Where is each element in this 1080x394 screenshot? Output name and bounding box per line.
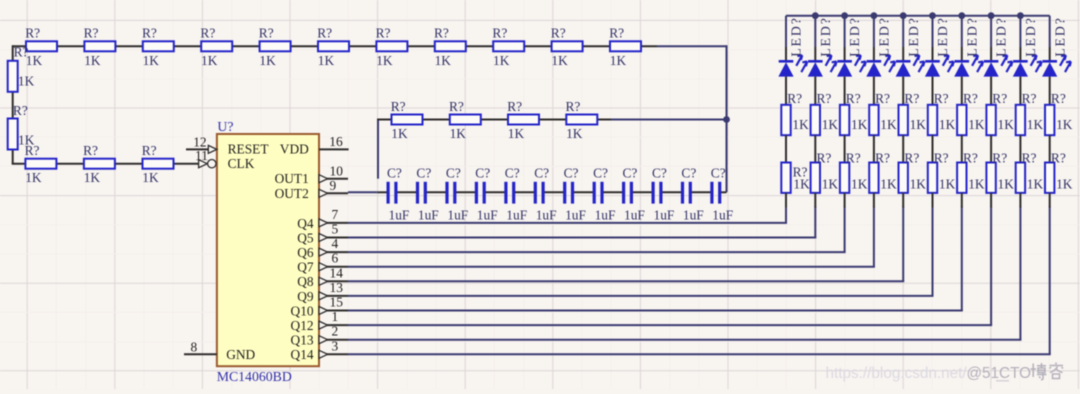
svg-text:1uF: 1uF <box>624 208 645 223</box>
svg-text:MC14060BD: MC14060BD <box>217 369 292 384</box>
svg-text:1K: 1K <box>822 176 839 191</box>
svg-text:1K: 1K <box>25 170 42 185</box>
svg-text:R?: R? <box>13 103 28 118</box>
svg-text:R?: R? <box>25 143 40 158</box>
svg-text:1K: 1K <box>201 53 218 68</box>
svg-text:Q13: Q13 <box>291 333 314 348</box>
svg-text:1K: 1K <box>142 170 159 185</box>
svg-text:1K: 1K <box>851 117 868 132</box>
svg-text:R?: R? <box>904 150 919 165</box>
svg-text:VDD: VDD <box>280 142 309 157</box>
svg-text:R?: R? <box>142 26 157 41</box>
svg-text:4: 4 <box>332 236 339 251</box>
svg-text:Q14: Q14 <box>291 347 314 362</box>
svg-text:1uF: 1uF <box>447 208 468 223</box>
svg-text:R?: R? <box>963 150 978 165</box>
svg-text:C?: C? <box>681 166 696 181</box>
svg-text:R?: R? <box>787 91 802 106</box>
svg-text:C?: C? <box>623 166 638 181</box>
svg-text:1K: 1K <box>822 117 839 132</box>
svg-text:Q6: Q6 <box>297 245 314 260</box>
svg-text:1K: 1K <box>259 53 276 68</box>
svg-text:1uF: 1uF <box>389 208 410 223</box>
svg-text:1K: 1K <box>939 117 956 132</box>
svg-text:1K: 1K <box>968 117 985 132</box>
svg-text:R?: R? <box>376 26 391 41</box>
svg-text:Q7: Q7 <box>297 260 314 275</box>
svg-text:1K: 1K <box>910 176 927 191</box>
svg-text:1K: 1K <box>566 126 583 141</box>
svg-text:R?: R? <box>1051 91 1066 106</box>
svg-text:1K: 1K <box>998 117 1015 132</box>
svg-text:1K: 1K <box>508 126 525 141</box>
svg-text:LED?: LED? <box>906 16 921 57</box>
svg-text:LED?: LED? <box>1052 16 1067 57</box>
svg-text:5: 5 <box>332 222 339 237</box>
svg-text:1uF: 1uF <box>595 208 616 223</box>
svg-text:LED?: LED? <box>789 16 804 57</box>
svg-text:3: 3 <box>332 338 339 353</box>
svg-text:R?: R? <box>1051 150 1066 165</box>
svg-text:1K: 1K <box>435 53 452 68</box>
svg-text:1K: 1K <box>880 176 897 191</box>
svg-text:LED?: LED? <box>964 16 979 57</box>
svg-text:1uF: 1uF <box>565 208 586 223</box>
svg-text:C?: C? <box>387 166 402 181</box>
svg-text:1K: 1K <box>84 53 101 68</box>
svg-text:1K: 1K <box>851 176 868 191</box>
svg-text:1K: 1K <box>1056 176 1073 191</box>
svg-text:1K: 1K <box>18 73 35 88</box>
svg-text:R?: R? <box>846 91 861 106</box>
svg-text:https://blog.csdn.net/: https://blog.csdn.net/ <box>826 365 968 382</box>
svg-text:R?: R? <box>1022 91 1037 106</box>
svg-text:1K: 1K <box>793 176 810 191</box>
svg-text:1uF: 1uF <box>654 208 675 223</box>
svg-text:Q9: Q9 <box>297 289 314 304</box>
svg-text:1K: 1K <box>968 176 985 191</box>
svg-text:15: 15 <box>330 295 344 310</box>
svg-text:R?: R? <box>551 26 566 41</box>
svg-text:12: 12 <box>193 134 206 149</box>
svg-text:R?: R? <box>817 150 832 165</box>
svg-text:1K: 1K <box>143 53 160 68</box>
svg-text:R?: R? <box>846 150 861 165</box>
svg-text:R?: R? <box>875 150 890 165</box>
svg-text:R?: R? <box>83 143 98 158</box>
svg-text:1K: 1K <box>610 53 627 68</box>
svg-text:Q5: Q5 <box>297 230 314 245</box>
svg-text:R?: R? <box>391 99 406 114</box>
svg-text:R?: R? <box>259 26 274 41</box>
svg-text:C?: C? <box>505 166 520 181</box>
svg-text:C?: C? <box>416 166 431 181</box>
svg-text:1: 1 <box>332 309 339 324</box>
svg-text:R?: R? <box>492 26 507 41</box>
svg-text:1uF: 1uF <box>712 208 733 223</box>
svg-text:6: 6 <box>332 251 339 266</box>
svg-text:13: 13 <box>330 280 344 295</box>
svg-text:1K: 1K <box>910 117 927 132</box>
svg-text:1K: 1K <box>1027 117 1044 132</box>
svg-text:R?: R? <box>317 26 332 41</box>
svg-text:1K: 1K <box>551 53 568 68</box>
svg-text:8: 8 <box>191 339 198 354</box>
svg-text:1uF: 1uF <box>477 208 498 223</box>
svg-text:C?: C? <box>564 166 579 181</box>
svg-text:OUT1: OUT1 <box>275 171 309 186</box>
svg-text:R?: R? <box>934 91 949 106</box>
svg-text:1K: 1K <box>493 53 510 68</box>
svg-text:11: 11 <box>195 148 208 163</box>
svg-text:R?: R? <box>992 150 1007 165</box>
svg-text:1K: 1K <box>1056 117 1073 132</box>
svg-text:1uF: 1uF <box>683 208 704 223</box>
svg-text:R?: R? <box>934 150 949 165</box>
svg-text:Q4: Q4 <box>297 216 314 231</box>
svg-text:R?: R? <box>875 91 890 106</box>
svg-text:1K: 1K <box>391 126 408 141</box>
svg-text:1K: 1K <box>84 170 101 185</box>
svg-text:GND: GND <box>226 347 255 362</box>
svg-text:1K: 1K <box>376 53 393 68</box>
svg-text:LED?: LED? <box>818 16 833 57</box>
svg-text:LED?: LED? <box>935 16 950 57</box>
svg-text:R?: R? <box>904 91 919 106</box>
svg-text:U?: U? <box>217 119 233 134</box>
svg-text:R?: R? <box>142 143 157 158</box>
svg-text:C?: C? <box>446 166 461 181</box>
svg-text:C?: C? <box>652 166 667 181</box>
svg-text:1K: 1K <box>450 126 467 141</box>
svg-text:LED?: LED? <box>847 16 862 57</box>
svg-text:R?: R? <box>25 26 40 41</box>
svg-text:16: 16 <box>329 134 343 149</box>
svg-text:1uF: 1uF <box>536 208 557 223</box>
svg-text:1K: 1K <box>1027 176 1044 191</box>
svg-text:R?: R? <box>434 26 449 41</box>
svg-text:R?: R? <box>817 91 832 106</box>
svg-text:R?: R? <box>566 99 581 114</box>
svg-text:R?: R? <box>200 26 215 41</box>
svg-text:R?: R? <box>1022 150 1037 165</box>
svg-text:LED?: LED? <box>994 16 1009 57</box>
svg-text:1uF: 1uF <box>506 208 527 223</box>
svg-text:1K: 1K <box>939 176 956 191</box>
svg-text:Q12: Q12 <box>291 318 314 333</box>
svg-text:@51CTO: @51CTO <box>967 365 1032 382</box>
svg-text:Q10: Q10 <box>291 303 314 318</box>
svg-text:1K: 1K <box>318 53 335 68</box>
svg-text:R?: R? <box>609 26 624 41</box>
svg-text:C?: C? <box>475 166 490 181</box>
svg-text:R?: R? <box>507 99 522 114</box>
svg-text:10: 10 <box>330 164 344 179</box>
svg-text:LED?: LED? <box>877 16 892 57</box>
svg-text:9: 9 <box>330 178 337 193</box>
svg-text:R?: R? <box>84 26 99 41</box>
svg-text:C?: C? <box>711 166 726 181</box>
svg-text:1K: 1K <box>792 117 809 132</box>
svg-text:14: 14 <box>330 265 344 280</box>
svg-text:R?: R? <box>963 91 978 106</box>
svg-text:CLK: CLK <box>228 156 255 171</box>
svg-text:R?: R? <box>449 99 464 114</box>
svg-text:Q8: Q8 <box>297 274 314 289</box>
svg-text:1K: 1K <box>880 117 897 132</box>
svg-text:2: 2 <box>332 324 339 339</box>
svg-text:LED?: LED? <box>1023 16 1038 57</box>
svg-text:1K: 1K <box>998 176 1015 191</box>
svg-text:C?: C? <box>534 166 549 181</box>
svg-text:R?: R? <box>14 45 29 60</box>
svg-text:OUT2: OUT2 <box>275 186 309 201</box>
svg-text:R?: R? <box>992 91 1007 106</box>
svg-text:7: 7 <box>332 207 339 222</box>
svg-text:C?: C? <box>593 166 608 181</box>
svg-text:1uF: 1uF <box>418 208 439 223</box>
svg-text:RESET: RESET <box>228 142 269 157</box>
